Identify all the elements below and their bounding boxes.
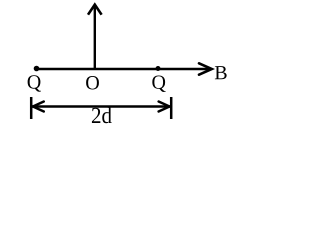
dimension tick left [30, 97, 33, 119]
node charge dot right Q [156, 66, 161, 71]
node charge dot left Q [34, 66, 40, 72]
wire vertical line (up arrow) [94, 6, 96, 70]
wire main horizontal line (field line B) [36, 68, 211, 71]
dimension arrowhead right [159, 102, 170, 112]
dimension tick right [170, 97, 173, 119]
dimension line 2d [31, 105, 171, 107]
label O origin [86, 76, 99, 89]
label B [215, 66, 227, 79]
label Q right [152, 75, 165, 91]
arrowhead up [88, 5, 102, 15]
label 2d [92, 107, 112, 123]
dimension arrowhead left [33, 102, 44, 112]
arrowhead right (B direction) [199, 63, 212, 74]
label Q left [28, 75, 41, 91]
